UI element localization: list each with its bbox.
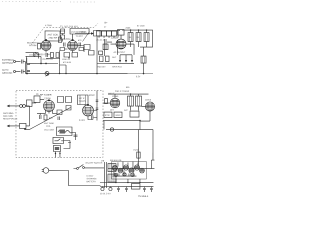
junction dot — [24, 128, 26, 130]
filter cap C21 — [125, 187, 128, 193]
capacitor C25 — [91, 114, 93, 120]
box B3 — [89, 51, 95, 56]
resistor R18 — [114, 112, 122, 118]
capacitor C4 — [22, 69, 26, 73]
svg-text:ANT TUNE: ANT TUNE — [44, 122, 55, 125]
resistor R11 — [144, 33, 149, 42]
terminal box TB2 — [102, 31, 107, 36]
wire R1-V1 — [40, 45, 43, 47]
box B4 — [66, 105, 71, 110]
junction dot rail right — [96, 73, 98, 75]
svg-text:BATTERY: BATTERY — [86, 180, 96, 183]
svg-text:GROUND: GROUND — [2, 72, 13, 75]
lower bus wire — [27, 56, 59, 63]
wires S1 to bottom dash — [55, 151, 60, 157]
svg-text:B+: B+ — [105, 22, 109, 25]
junction dot rail — [26, 73, 28, 75]
arrows under V3: cap C13 — [119, 55, 121, 61]
svg-text:IF ADJ: IF ADJ — [79, 119, 85, 122]
V4 pins — [45, 110, 52, 113]
diagonal pointer — [83, 32, 90, 42]
long rail A — [26, 72, 153, 74]
tube V5 IF amp — [82, 105, 93, 116]
wire drop right — [117, 31, 119, 38]
right bracket connector — [151, 160, 154, 169]
wire bottom mid — [103, 120, 140, 122]
box on choke — [103, 44, 108, 50]
wire under pins — [37, 112, 58, 114]
junction dot — [40, 63, 42, 65]
wire V3 left — [111, 43, 117, 45]
page edge dotted line — [2, 0, 96, 3]
wire ant row — [26, 51, 38, 53]
winding box T4a — [108, 164, 116, 172]
filter cap C18 — [101, 187, 104, 190]
tube V7 det — [145, 102, 154, 111]
svg-text:1ST IF: 1ST IF — [79, 97, 86, 100]
wire R5 to V2 — [65, 48, 68, 50]
ground terminal circle — [14, 70, 16, 72]
rectifier tube V9 — [123, 165, 128, 170]
tone box below S1 — [53, 145, 60, 151]
filter cap C20 — [117, 187, 120, 193]
svg-text:0Z4 6X4 VIB: 0Z4 6X4 VIB — [110, 159, 122, 162]
comp below 2 — [58, 116, 60, 120]
wire V2 top — [72, 34, 74, 41]
tube V2 RF amp — [68, 40, 78, 50]
svg-text:2ND IF: 2ND IF — [108, 92, 115, 95]
wire through cluster — [108, 168, 152, 170]
wire R12 leads — [143, 47, 145, 73]
svg-text:470: 470 — [78, 39, 82, 42]
wire V7 left — [141, 106, 145, 108]
svg-text:A TRIM: A TRIM — [29, 44, 36, 47]
wire under arrows — [116, 55, 134, 64]
resistor R16 — [104, 99, 107, 104]
tube V1 converter — [41, 40, 51, 50]
svg-text:27: 27 — [104, 26, 107, 29]
svg-text:12AV6: 12AV6 — [145, 99, 152, 102]
svg-text:B+ 250V: B+ 250V — [137, 25, 145, 28]
top right rail — [122, 30, 153, 47]
T3 leads — [130, 94, 138, 111]
filter cap C19 — [109, 187, 112, 190]
lower bus 2 — [46, 57, 60, 59]
svg-text:AF OUTPUT: AF OUTPUT — [114, 51, 127, 54]
capacitor C17 — [96, 108, 99, 109]
V5 grid cap — [87, 104, 89, 106]
svg-text:2ND IF TRANS: 2ND IF TRANS — [115, 90, 130, 93]
wire left drop — [103, 121, 105, 130]
svg-text:12AQ5: 12AQ5 — [111, 37, 119, 40]
resistor R7 — [72, 52, 78, 57]
junction dots T3 — [130, 93, 131, 94]
tube V11 — [134, 165, 139, 170]
svg-text:ANTENNA: ANTENNA — [3, 112, 14, 115]
transformer T4 core — [104, 162, 106, 188]
svg-text:TO ANT: TO ANT — [76, 35, 84, 38]
vibrator tube V8 — [112, 165, 117, 170]
terminal box TB4 — [112, 31, 117, 36]
wire V5 bottom to x97 — [88, 116, 97, 120]
V4 grid cap — [48, 100, 50, 102]
box right of V4 — [57, 96, 63, 102]
svg-text:.05 .05 .01: .05 .05 .01 — [96, 39, 105, 42]
comp right of pot — [73, 135, 77, 136]
wire bottom h — [97, 63, 116, 65]
lower blob 2 — [123, 173, 126, 176]
winding box T3b — [135, 96, 141, 106]
wire down — [139, 121, 141, 130]
svg-text:IMEG: IMEG — [115, 114, 121, 117]
potentiometer box R15 — [56, 127, 72, 136]
svg-text:12BA6: 12BA6 — [112, 95, 119, 98]
jack J2 — [19, 123, 26, 128]
V1 grid cap — [45, 39, 47, 41]
svg-text:RECEPTACLE: RECEPTACLE — [3, 118, 18, 121]
junction dots S1 — [55, 153, 56, 154]
chassis dashed outline top unit — [31, 23, 99, 45]
resistor R14 — [106, 56, 110, 62]
switch box S1 — [53, 137, 64, 143]
wire — [117, 40, 119, 55]
long wire low — [106, 129, 153, 131]
wire V7 down — [140, 111, 150, 121]
wire plug to psu — [49, 170, 101, 185]
fuse symbol — [137, 152, 140, 158]
svg-text:STORAGE: STORAGE — [86, 177, 97, 180]
V2 grid cap — [72, 39, 74, 41]
resistor R19 — [130, 111, 139, 117]
trimmer stack right of L1 — [61, 29, 65, 34]
cap C14 — [125, 55, 127, 61]
buffer cap blob — [118, 168, 123, 173]
output transformer box above V3 — [118, 30, 125, 36]
wire stub — [107, 41, 112, 43]
grid resistor R1 — [38, 43, 41, 49]
B+ strip line — [96, 30, 120, 32]
rectifier box outline — [111, 162, 146, 180]
wire V2 bottom — [72, 50, 74, 52]
box below V2 right — [84, 45, 90, 50]
resistor R10 — [136, 33, 141, 42]
caps right of V2: capacitor C8 — [79, 43, 81, 47]
svg-text:470 6.8K: 470 6.8K — [63, 61, 72, 64]
svg-text:RF TUNER: RF TUNER — [40, 94, 52, 97]
jack on wire — [110, 128, 113, 131]
wire V6 top — [114, 94, 116, 98]
pilot lamp DS1 — [45, 71, 49, 76]
svg-text:AND GRD: AND GRD — [3, 115, 14, 118]
cap C15 — [131, 55, 133, 61]
resistor R3 — [56, 52, 59, 57]
svg-text:DET: DET — [110, 109, 115, 112]
resistor R13 — [100, 56, 104, 62]
svg-text:AUTO: AUTO — [2, 69, 9, 72]
svg-text:TM 858-5: TM 858-5 — [138, 195, 149, 198]
psu rail dots — [115, 182, 116, 183]
svg-text:6.3V: 6.3V — [136, 75, 141, 78]
svg-text:TRANS: TRANS — [79, 100, 87, 103]
svg-text:250K: 250K — [126, 27, 131, 30]
svg-text:470K: 470K — [105, 114, 110, 117]
choke L2 doubled wire — [105, 39, 107, 56]
wire ant bus — [26, 55, 35, 57]
rail — [108, 93, 148, 95]
junction dot — [68, 57, 69, 58]
wire pot right — [68, 132, 76, 142]
svg-text:BUZZER ADJ: BUZZER ADJ — [27, 41, 40, 44]
junction dot 2 — [45, 63, 47, 65]
svg-text:OUT: OUT — [112, 56, 117, 59]
svg-text:12BD6: 12BD6 — [44, 97, 51, 100]
lower blob row — [112, 175, 136, 177]
tube V6 2nd IF — [110, 98, 120, 108]
antenna receptacle arrow 1 — [9, 105, 19, 107]
wire V6 left — [103, 102, 110, 104]
wire J1 J2 link — [25, 106, 29, 126]
capacitor C24 — [39, 113, 41, 119]
svg-text:FUSE: FUSE — [133, 149, 139, 152]
mid column verticals: wire — [96, 37, 98, 74]
lower blob 3 — [131, 173, 134, 176]
terminal ticks — [99, 36, 114, 38]
capacitor C16 — [96, 100, 99, 101]
antenna shield drop doubled — [25, 58, 27, 74]
filter choke box — [131, 184, 140, 190]
jack J1 — [20, 105, 23, 108]
capacitor C7 — [64, 42, 66, 46]
svg-text:100K .01: 100K .01 — [62, 58, 71, 61]
svg-text:12BA6: 12BA6 — [64, 38, 71, 41]
resistor R8 — [79, 48, 84, 51]
cluster lower comps — [114, 171, 134, 177]
resistor R12 — [141, 56, 146, 63]
wire T2 to V5 — [84, 105, 86, 106]
IF transformer T2 box — [77, 95, 88, 105]
loop wires to rail — [60, 65, 67, 74]
caps row under V1: capacitor C5 — [34, 53, 36, 57]
resistor R6 — [64, 52, 70, 57]
svg-text:20 20 .5 8 8: 20 20 .5 8 8 — [100, 192, 111, 195]
terminal box TB1 — [97, 31, 102, 36]
svg-text:A TRIM: A TRIM — [45, 24, 52, 27]
svg-text:455: 455 — [126, 86, 130, 89]
svg-text:6 VOLT: 6 VOLT — [86, 175, 94, 178]
junction dot — [139, 120, 141, 122]
small comp below — [57, 110, 62, 115]
resistor R9 — [128, 33, 133, 42]
resistor R20 — [44, 115, 47, 120]
power plug P1 — [42, 168, 49, 174]
capacitor C6 — [46, 53, 48, 57]
wire J2 down — [25, 128, 30, 129]
tube V3 output — [116, 39, 126, 49]
svg-text:SPKR FLD: SPKR FLD — [112, 66, 122, 69]
wire down to PSU — [137, 130, 139, 166]
wire switch left — [73, 167, 76, 169]
svg-text:455KC: 455KC — [89, 94, 96, 97]
wire left drop — [59, 50, 61, 64]
box right of V4 b — [65, 96, 71, 102]
winding box T3a — [127, 96, 133, 106]
bottom rails — [100, 183, 154, 187]
diagonal link wire — [29, 107, 70, 129]
tuner dashed box — [16, 90, 103, 157]
wire V1 down — [45, 50, 47, 52]
filter cap C23 — [150, 187, 153, 193]
wire V3 right — [126, 44, 134, 55]
resistor R2 — [51, 52, 54, 57]
wire S1 right — [63, 140, 70, 148]
tuning gang C2 — [34, 52, 41, 58]
svg-text:EXTERNAL: EXTERNAL — [2, 59, 15, 62]
small blob box — [99, 51, 103, 55]
svg-text:ANTENNA: ANTENNA — [2, 62, 13, 65]
cluster leads up — [118, 162, 138, 169]
vol control inner blob — [59, 129, 65, 133]
wires into V4 — [32, 99, 44, 103]
oscillator coil box L1 — [45, 31, 60, 41]
comp right of drop — [27, 63, 30, 64]
capacitor C3 — [22, 59, 26, 63]
arrow 2 — [9, 125, 19, 127]
svg-text:2ND DET: 2ND DET — [97, 66, 106, 69]
junction dots psu — [122, 168, 123, 169]
lower blob 1 — [114, 173, 117, 176]
rectifier tube V10 — [129, 168, 134, 173]
wire switch right — [84, 167, 104, 169]
wire right edge down — [152, 130, 154, 161]
resistor R4 — [59, 37, 62, 43]
cluster drop wires — [116, 179, 140, 183]
box B2 — [94, 31, 101, 37]
coil box L3 — [26, 100, 32, 107]
RF gain arrow wire — [75, 32, 92, 34]
svg-text:AVC: AVC — [124, 109, 129, 112]
rail dots loop — [59, 73, 60, 74]
coil box L4 — [34, 96, 40, 103]
terminal box TB3 — [107, 31, 112, 36]
tube V4 RF amp — [43, 100, 54, 111]
junction dot rail R12 — [143, 73, 145, 75]
tube V12 — [140, 168, 145, 173]
svg-text:2ND RF: 2ND RF — [49, 37, 58, 40]
svg-text:OSC COIL ADJ: OSC COIL ADJ — [64, 25, 78, 28]
IF transformer T1 box — [70, 28, 89, 34]
winding box T4b — [108, 174, 116, 182]
svg-text:RF: RF — [36, 93, 39, 96]
wire V2 right to mid column — [78, 46, 85, 53]
resistor R5 — [60, 47, 65, 50]
filter cap C22 — [143, 187, 146, 193]
svg-text:VOL CONT: VOL CONT — [44, 128, 55, 131]
resistor R17 — [104, 112, 112, 118]
wires resistor leads — [131, 30, 147, 47]
svg-text:COIL: COIL — [46, 125, 52, 128]
rail junction dots — [130, 29, 131, 30]
svg-text:2.2 MEG: 2.2 MEG — [78, 31, 86, 34]
antenna terminal circle — [14, 60, 16, 62]
wire V1 top to coil — [45, 39, 47, 41]
comp right of drop 2 — [27, 70, 30, 71]
switch S2 — [77, 164, 85, 169]
svg-text:OSC B SET: OSC B SET — [29, 54, 40, 57]
wire V5 right — [93, 110, 97, 112]
wire vert right — [96, 91, 98, 121]
